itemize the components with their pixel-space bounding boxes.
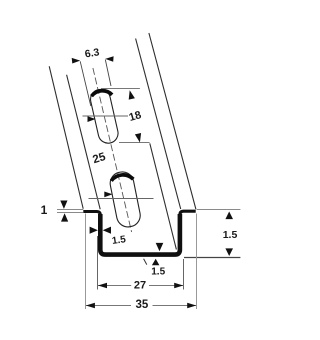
node: slot S2 (lower slot outline) bbox=[108, 170, 142, 229]
node: cross-section profile (hat rail) bbox=[83, 211, 195, 254]
wire: inner bottom-right crease edge bbox=[150, 143, 177, 249]
wire: dim-27 dimension line bbox=[98, 285, 131, 287]
wire: dim-27 left extension line bbox=[97, 236, 99, 290]
wire: rail edge A (left outer flange edge, oblique) bbox=[49, 66, 83, 209]
svg-text:6.3: 6.3 bbox=[84, 46, 100, 60]
node: arrow dim-27 right bbox=[174, 283, 183, 289]
svg-text:1.5: 1.5 bbox=[111, 234, 127, 247]
wire: 6.3 left extension line bbox=[80, 61, 91, 106]
node: arrow 6.3 left bbox=[72, 58, 81, 64]
wire: dim-35 left extension line bbox=[85, 214, 87, 310]
node: cross-section channel (thicker web/bottom strokes) bbox=[100, 214, 180, 255]
wire: dim-1 lower extension line bbox=[57, 212, 83, 214]
node: arrow dim-35 right bbox=[187, 303, 196, 309]
node: arrow dim-15 up bbox=[225, 212, 233, 220]
wire: rail edge F (right outer flange edge, oblique) bbox=[149, 33, 196, 209]
node: slot S1 (upper slot outline) bbox=[89, 87, 120, 145]
node: arrow at lower slot left edge bbox=[104, 192, 112, 198]
wire: upper slot horizontal centre mark bbox=[83, 115, 129, 117]
node: arrow dim-15 down bbox=[225, 248, 233, 256]
node: arrow at upper slot left edge bbox=[88, 116, 96, 122]
wire: rail edge B (left bend edge, oblique) bbox=[67, 75, 101, 210]
wire: dim-35 dimension line bbox=[86, 305, 131, 307]
wire: dim-15 top extension line bbox=[197, 209, 241, 211]
node: arrow 18 down bbox=[135, 133, 141, 143]
wire: 6.3 right extension line bbox=[105, 60, 111, 87]
svg-text:1: 1 bbox=[41, 203, 48, 217]
node: arrow 6.3 right bbox=[105, 56, 113, 62]
node: arrow bottom-1.5 down bbox=[156, 243, 164, 251]
node: arrow dim-1 down bbox=[60, 201, 67, 209]
wire: leader tick for bottom 1.5 bbox=[144, 259, 147, 265]
svg-text:1.5: 1.5 bbox=[223, 229, 238, 241]
node: arrow bottom-1.5 up bbox=[152, 259, 160, 266]
wire: slot S2 thick top arc bbox=[111, 175, 133, 181]
svg-text:27: 27 bbox=[134, 280, 146, 292]
wire: dim-35 right extension line bbox=[196, 214, 198, 310]
node: arrow dim-1 up bbox=[61, 213, 68, 221]
wire: dim-15 bottom extension line bbox=[184, 257, 240, 259]
wire: slot S1 thick top arc bbox=[92, 91, 113, 96]
node: arrow web-1.5 right bbox=[90, 227, 98, 234]
wire: dim-27 right extension line bbox=[183, 259, 185, 290]
wire: rail edge E (right bend outer edge, oblique) bbox=[136, 39, 181, 210]
wire: dim-1 upper extension line bbox=[57, 209, 83, 211]
node: arrow dim-27 left bbox=[98, 283, 107, 289]
wire: lower slot horizontal centre mark bbox=[89, 198, 154, 200]
node: arrow web-1.5 left bbox=[103, 227, 111, 234]
wire: dim-18 bottom extension line bbox=[119, 142, 150, 144]
node: arrow 18 up bbox=[129, 90, 135, 99]
wire: slot centerline along rail bbox=[93, 68, 132, 232]
svg-text:35: 35 bbox=[136, 299, 149, 311]
node: arrow dim-35 left bbox=[86, 303, 95, 309]
svg-text:1.5: 1.5 bbox=[151, 266, 165, 277]
wire: dim-18 top extension line bbox=[101, 88, 140, 90]
